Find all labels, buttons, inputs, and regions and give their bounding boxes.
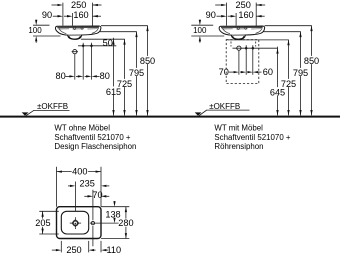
basin inner rim band <box>221 26 263 28</box>
svg-text:90: 90 <box>42 10 52 20</box>
tap hole horizontal line / 138 extension <box>90 222 124 224</box>
floor line (OKFFB) <box>0 116 340 118</box>
svg-text:280: 280 <box>118 218 133 228</box>
dim 250 line <box>52 4 58 6</box>
svg-text:160: 160 <box>73 10 88 20</box>
svg-text:725: 725 <box>281 79 296 89</box>
dim 280 line <box>125 207 127 239</box>
right bottom extension <box>101 238 129 240</box>
dim 90 arrows <box>53 15 58 17</box>
basin tap hole dimple 2 <box>81 27 83 30</box>
dim 100 upper arrow <box>35 20 37 21</box>
right top extension <box>101 206 129 208</box>
svg-text:100: 100 <box>193 26 207 35</box>
basin bowl shading left <box>59 28 67 34</box>
basin tap hole dimple 1 <box>237 27 239 30</box>
basin bowl (plan) <box>61 211 88 234</box>
bottom extension rect right <box>100 241 102 253</box>
basin rim texture marks <box>59 28 98 30</box>
basin inner rim band <box>57 26 99 28</box>
dim 250 bottom arrows <box>52 249 56 251</box>
dim 90 arrows <box>217 15 222 17</box>
dim 138 upper arrow <box>114 200 116 203</box>
dim 138 lower arrow <box>114 217 116 220</box>
svg-text:Design Flaschensiphon: Design Flaschensiphon <box>54 142 136 151</box>
dim line 795 <box>136 32 138 116</box>
drain symbol (rosette) <box>72 220 78 226</box>
dim 250 extension line right <box>92 3 94 26</box>
svg-text:70: 70 <box>219 67 229 77</box>
svg-text:Schaftventil 521070 +: Schaftventil 521070 + <box>214 133 291 142</box>
dim 250 extension line left <box>62 3 64 26</box>
dim 100 upper extension <box>191 24 213 26</box>
dim 400 extension right <box>100 167 102 207</box>
dim 400 extension left <box>56 167 58 207</box>
dim 160 extension line <box>235 13 237 26</box>
dim 100 lower extension <box>191 35 224 37</box>
dim 250 extension line right <box>255 3 257 26</box>
basin bulge top line <box>68 34 82 36</box>
tap marker line <box>233 47 278 49</box>
drain circle <box>237 46 241 50</box>
svg-text:250: 250 <box>71 0 86 10</box>
dim 100 upper arrow <box>199 20 201 21</box>
basin bowl shading left <box>222 28 230 34</box>
dim 100 lower extension <box>33 35 61 37</box>
dim 400 line <box>57 171 102 173</box>
svg-text:160: 160 <box>238 10 253 20</box>
dim line 795 <box>300 32 302 116</box>
basin outline (front view) <box>219 26 264 39</box>
tap marker 1 <box>245 46 248 50</box>
svg-text:Schaftventil 521070 +: Schaftventil 521070 + <box>54 133 131 142</box>
svg-text:110: 110 <box>106 245 121 255</box>
svg-text:235: 235 <box>80 178 95 188</box>
furniture cabinet (dashed) <box>226 40 259 84</box>
basin tap hole dimple 2 <box>245 27 247 30</box>
svg-text:70: 70 <box>92 190 102 200</box>
dim line 725 <box>124 39 126 115</box>
bottom extension bowl left <box>60 241 62 253</box>
dim 100 upper extension <box>33 24 50 26</box>
svg-text:±OKFFB: ±OKFFB <box>37 102 68 111</box>
svg-text:400: 400 <box>72 166 87 176</box>
dim 235 arrows <box>68 185 71 187</box>
drain vertical extension (to 235 dim) <box>74 182 76 212</box>
dim 205 line <box>42 211 44 234</box>
tap marker 2 <box>251 46 254 50</box>
basin rim texture marks <box>222 28 261 30</box>
svg-text:80: 80 <box>55 71 65 81</box>
svg-text:80: 80 <box>100 71 110 81</box>
tap marker line / 50 underline <box>78 45 116 47</box>
basin bowl shading right <box>92 28 99 34</box>
OKFFB triangle <box>22 112 29 115</box>
svg-text:Röhrensiphon: Röhrensiphon <box>214 142 263 151</box>
dim 80 arrows <box>66 75 71 77</box>
OKFFB slant line <box>199 110 207 116</box>
svg-text:WT ohne Möbel: WT ohne Möbel <box>54 124 110 133</box>
dim 250 line <box>215 4 221 6</box>
svg-text:60: 60 <box>263 67 273 77</box>
dim line 615 <box>113 38 115 116</box>
svg-text:100: 100 <box>28 26 42 35</box>
svg-text:795: 795 <box>293 68 308 78</box>
anchor line 725 <box>81 38 125 40</box>
drain circle drop line <box>238 50 240 75</box>
tap marker 1 <box>82 44 85 48</box>
basin bowl shading right <box>256 28 263 34</box>
svg-text:250: 250 <box>66 245 81 255</box>
svg-text:50: 50 <box>103 38 113 48</box>
dim 100 lower arrow <box>35 41 37 43</box>
basin bulge top line <box>231 34 245 36</box>
anchor line 795 <box>100 31 137 33</box>
tap marker 2 <box>90 44 93 48</box>
svg-text:WT mit Möbel: WT mit Möbel <box>214 124 263 133</box>
dim 160 arrow right <box>256 15 265 17</box>
dim 250 extension line left <box>226 3 228 26</box>
basin bulge inner arc <box>69 36 80 39</box>
dim line 645 <box>277 47 279 116</box>
anchor line 725 / cabinet top line <box>228 39 289 41</box>
svg-text:795: 795 <box>129 68 144 78</box>
cabinet hidden edge dashes <box>231 42 256 47</box>
drain circle drop line <box>74 54 76 80</box>
svg-text:90: 90 <box>206 10 216 20</box>
svg-text:725: 725 <box>117 79 132 89</box>
basin outer rectangle (plan) <box>57 207 102 239</box>
dim line 725 <box>288 40 290 116</box>
tap hole lower extension <box>92 226 94 246</box>
svg-text:205: 205 <box>35 218 50 228</box>
dim 160 extension line <box>71 13 73 26</box>
anchor line 850 <box>265 25 312 27</box>
svg-text:250: 250 <box>236 0 251 10</box>
tap hole vertical extension (to 70 dim) <box>92 190 94 221</box>
OKFFB underline <box>34 109 70 111</box>
OKFFB underline <box>207 109 250 111</box>
dim 160 arrow right <box>93 15 102 17</box>
dim 205 extension top <box>39 210 59 212</box>
svg-text:±OKFFB: ±OKFFB <box>209 102 240 111</box>
drain circle <box>73 50 77 54</box>
basin outline (front view) <box>55 26 100 39</box>
dim 110 arrows <box>101 249 106 251</box>
anchor line 795 <box>264 31 301 33</box>
dim line 850 <box>147 26 149 116</box>
dim 100 lower arrow <box>199 41 201 43</box>
tap hole <box>91 221 94 224</box>
basin bulge inner arc <box>233 36 244 39</box>
anchor line 850 <box>101 25 148 27</box>
dim 205 extension bottom <box>39 233 59 235</box>
OKFFB triangle <box>195 112 202 115</box>
dim line 850 <box>311 26 313 116</box>
bottom extension bowl right <box>88 241 90 253</box>
svg-text:850: 850 <box>140 56 155 66</box>
dim 70/60 arrows <box>229 71 234 73</box>
basin tap hole dimple 1 <box>74 27 76 30</box>
dim 70 arrows <box>84 195 87 197</box>
svg-text:850: 850 <box>304 56 319 66</box>
OKFFB slant line <box>26 110 34 115</box>
